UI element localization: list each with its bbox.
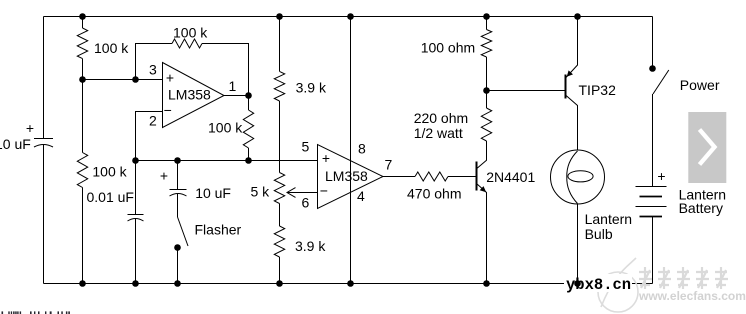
resistor R7 3.9k lower	[274, 226, 284, 257]
potentiometer R6 5k	[274, 173, 284, 204]
transistor Q2 emitter arrow	[567, 70, 573, 76]
wire top rail to R1	[82, 17, 84, 29]
svg-text:100 k: 100 k	[94, 40, 129, 56]
switch S2 power blade	[653, 70, 669, 94]
svg-text:Bulb: Bulb	[585, 226, 613, 242]
junction flasher contact	[174, 244, 181, 251]
capacitor C1 0.01uF top plate	[128, 214, 144, 216]
nav overlay gray box	[688, 112, 726, 183]
junction bottom rail / R2	[79, 280, 86, 287]
wire op-amp U1A pin 2 to C1 column	[136, 112, 163, 215]
lamp DS1 filament ellipse	[568, 171, 593, 182]
battery BT1 plate 1 long positive	[636, 186, 667, 188]
svg-text:2: 2	[149, 113, 157, 129]
resistor R10 220 ohm 1/2 watt	[481, 108, 491, 141]
svg-text:1: 1	[229, 78, 237, 94]
svg-text:+: +	[322, 150, 330, 166]
wire feedback right drop to node B	[202, 44, 249, 96]
capacitor C1 0.01uF curved plate	[128, 219, 144, 222]
wire R4 to RC node wire	[248, 148, 250, 161]
battery BT1 plate 2 short	[640, 196, 663, 198]
svg-text:5: 5	[302, 139, 310, 155]
resistor R4 100k output divider	[243, 110, 253, 148]
battery BT1 plate 3 long	[636, 206, 667, 208]
wire C2 to flasher switch blade	[177, 194, 179, 218]
watermark ybx8.cn halo	[564, 274, 632, 292]
svg-text:−: −	[164, 102, 172, 118]
svg-text:220 ohm: 220 ohm	[414, 110, 468, 126]
resistor R5 3.9k upper	[274, 71, 284, 101]
svg-text:+: +	[26, 120, 34, 136]
transistor Q2 collector	[566, 95, 578, 150]
wire lamp DS1 to bottom rail	[577, 204, 579, 284]
junction top rail / pin 8 column	[347, 13, 354, 20]
junction bottom rail / Q1 emitter	[483, 280, 490, 287]
resistor R1 100k left upper	[77, 28, 87, 59]
junction switch S2 contact	[649, 65, 656, 72]
resistor R3 100k feedback	[172, 39, 202, 48]
junction top rail / R1	[79, 13, 86, 20]
junction top rail / divider	[276, 13, 283, 20]
svg-text:3.9 k: 3.9 k	[295, 238, 326, 254]
watermark chinese characters	[639, 267, 728, 289]
wire flasher contact to bottom rail	[177, 248, 179, 284]
wire R8 to Q1 base	[448, 176, 476, 178]
wire node C to Q2 base	[487, 90, 566, 92]
wire node B to R4	[248, 96, 250, 111]
transistor Q1 emitter	[477, 184, 487, 284]
op-amp U1B LM358 triangle	[318, 145, 384, 209]
wire switch S2 to battery BT1	[652, 94, 654, 187]
junction bottom rail / lamp	[574, 280, 581, 287]
svg-text:+: +	[657, 168, 665, 184]
transistor Q1 collector	[477, 141, 487, 169]
junction bottom rail / flasher	[174, 280, 181, 287]
op-amp U1A LM358 triangle	[163, 63, 225, 128]
lamp DS1 lantern bulb circle	[551, 150, 605, 204]
pot wiper arrowhead	[287, 188, 296, 198]
svg-text:TIP32: TIP32	[579, 82, 617, 98]
wire top rail right corner to switch S2	[652, 17, 654, 69]
wire R7 to bottom rail	[279, 257, 281, 284]
svg-text:+: +	[166, 70, 174, 86]
capacitor C2 10uF top plate	[170, 189, 187, 191]
cut-off caption text at bottom edge	[2, 311, 70, 314]
svg-text:LM358: LM358	[325, 168, 368, 184]
transistor Q1 2N4401 base bar	[476, 162, 478, 191]
wire supply column pins 8 and 4	[350, 17, 352, 284]
wire top rail to R5	[279, 17, 281, 72]
svg-text:7: 7	[385, 157, 393, 173]
wire op-amp U1B output pin 7	[383, 176, 415, 178]
resistor R2 100k left lower	[77, 153, 87, 188]
junction RC node / R4	[245, 157, 252, 164]
svg-text:3.9 k: 3.9 k	[296, 80, 327, 96]
junction node C base drive	[483, 87, 490, 94]
svg-text:5 k: 5 k	[251, 183, 271, 199]
svg-text:3: 3	[149, 62, 157, 78]
svg-text:10 uF: 10 uF	[195, 185, 231, 201]
wire R5 to R6 crossing RC wire	[279, 101, 281, 173]
svg-text:+: +	[160, 167, 168, 183]
svg-text:0.01 uF: 0.01 uF	[87, 189, 134, 205]
svg-text:100 k: 100 k	[173, 25, 208, 41]
wire RC node horizontal to op-amp U1B pin 5	[136, 160, 318, 162]
svg-text:100 k: 100 k	[208, 119, 243, 135]
junction top rail / R9	[483, 13, 490, 20]
transistor Q2 TIP32 base bar	[565, 75, 567, 99]
svg-text:−: −	[320, 182, 328, 198]
svg-text:LM358: LM358	[168, 86, 211, 102]
junction RC node / C2	[174, 157, 181, 164]
battery BT1 plate 4 short	[640, 216, 663, 218]
wire top rail to R9	[486, 17, 488, 30]
wire left edge lower from C3 to bottom rail	[43, 145, 45, 284]
wire R2 to bottom rail	[82, 188, 84, 284]
wire RC node to C2	[177, 161, 179, 190]
capacitor C3 10uF top plate	[34, 138, 53, 140]
svg-text:Battery: Battery	[679, 200, 723, 216]
wire R9 to node C	[486, 57, 488, 108]
svg-text:Flasher: Flasher	[195, 221, 242, 237]
svg-text:www.elecfans.com: www.elecfans.com	[638, 289, 746, 303]
wire feedback left drop	[136, 44, 173, 80]
wire R6 to R7	[279, 204, 281, 227]
svg-text:2N4401: 2N4401	[486, 169, 535, 185]
svg-text:Lantern: Lantern	[585, 211, 632, 227]
svg-text:10 uF: 10 uF	[0, 136, 31, 152]
junction RC node / C1	[132, 157, 139, 164]
watermark logo circle	[598, 258, 638, 312]
junction node B output	[245, 92, 252, 99]
wire R1 to node A	[82, 59, 84, 153]
wire left edge upper to C3	[43, 17, 45, 139]
capacitor C2 10uF curved plate	[170, 194, 187, 197]
switch S1 flasher blade	[178, 217, 189, 246]
svg-text:4: 4	[357, 188, 365, 204]
wire top supply rail	[44, 16, 653, 18]
wire pot wiper to op-amp U1B pin 6	[288, 192, 318, 194]
junction bottom rail / C1	[132, 280, 139, 287]
resistor R8 470 ohm	[415, 172, 448, 181]
svg-text:100 ohm: 100 ohm	[421, 40, 475, 56]
svg-text:1/2 watt: 1/2 watt	[414, 125, 463, 141]
transistor Q1 emitter arrow	[480, 186, 487, 192]
svg-text:Power: Power	[680, 77, 720, 93]
junction bottom rail / divider	[276, 280, 283, 287]
nav overlay chevron	[700, 130, 715, 165]
junction top rail / Q2 emitter	[574, 13, 581, 20]
transistor Q2 emitter	[566, 17, 578, 79]
svg-text:100 k: 100 k	[92, 163, 127, 179]
svg-text:470 ohm: 470 ohm	[407, 186, 461, 202]
junction bottom rail / pin 4	[347, 280, 354, 287]
capacitor C3 10uF curved plate	[34, 145, 53, 148]
wire C1 to bottom rail	[135, 219, 137, 284]
wire battery BT1 to bottom rail	[652, 217, 654, 284]
junction node A R1-R2-pin3	[79, 76, 86, 83]
resistor R9 100 ohm	[481, 30, 491, 58]
wire bottom ground rail	[44, 283, 653, 285]
wire op-amp U1A output to node B	[224, 95, 249, 97]
svg-text:6: 6	[302, 194, 310, 210]
wire node A to op-amp U1A pin 3	[83, 79, 163, 81]
svg-text:8: 8	[358, 141, 366, 157]
junction feedback / pin3 wire	[132, 76, 139, 83]
lamp DS1 inner curve	[567, 151, 578, 204]
